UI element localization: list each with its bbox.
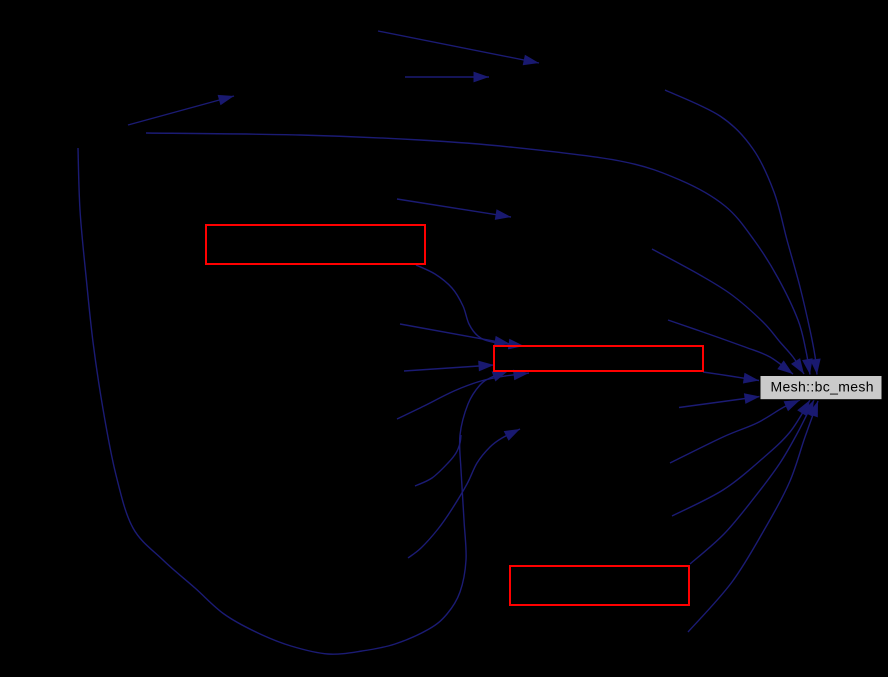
svg-text:Mesh::bc_mesh: Mesh::bc_mesh <box>771 379 874 395</box>
